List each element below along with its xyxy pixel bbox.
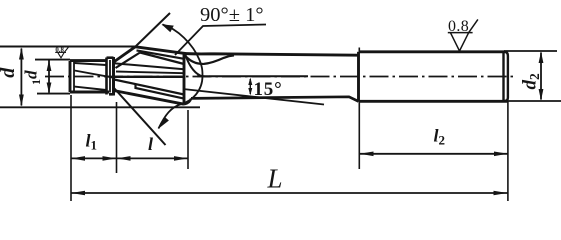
head flute line lower — [114, 80, 184, 95]
dimension L — [71, 192, 508, 194]
pilot interior lines — [75, 63, 114, 90]
arc arrowhead bottom — [158, 117, 169, 129]
head flute line upper — [140, 53, 184, 65]
extension line d2 top — [504, 50, 557, 52]
roughness symbol small 0.8 — [55, 47, 68, 58]
svg-text:l: l — [148, 134, 153, 154]
angular dimension arc 90deg — [159, 25, 203, 129]
head cone lip second line — [116, 53, 141, 69]
svg-text:0.8: 0.8 — [55, 47, 64, 54]
head top cone edge — [113, 47, 136, 63]
centerline — [45, 76, 515, 78]
45 deg construction line top — [136, 13, 171, 47]
pilot outline — [70, 61, 109, 92]
head flute line mid upper — [116, 72, 184, 74]
dimension l2 — [359, 153, 508, 155]
head top land line — [137, 50, 185, 58]
extension line l right — [187, 110, 189, 169]
leader for 90 deg — [175, 25, 266, 56]
extension line d1 top — [35, 59, 70, 61]
extension line right end — [507, 102, 509, 202]
head flute step lower — [136, 84, 185, 99]
svg-text:0.8: 0.8 — [448, 18, 469, 35]
flute runout tongue lower — [186, 55, 211, 77]
dimension d1 — [48, 61, 50, 93]
extension line d2 bottom — [504, 100, 561, 102]
head bottom edge — [114, 91, 185, 105]
collar between pilot and head — [107, 57, 114, 96]
15 deg double arrow — [249, 79, 251, 94]
extension line l2 left tick above — [358, 48, 360, 53]
flute runout tongue upper — [185, 55, 235, 64]
extension line d1 bottom — [37, 93, 70, 95]
45 deg construction line bottom — [114, 88, 166, 145]
neck bottom outline — [191, 97, 359, 102]
dimension d — [20, 49, 22, 106]
extension line d top — [0, 46, 136, 48]
svg-text:L: L — [267, 164, 283, 194]
head right edge — [183, 54, 186, 105]
arc arrowhead top — [162, 24, 174, 32]
extension line d bottom — [0, 106, 200, 108]
extension line l1/l middle — [116, 102, 118, 173]
head middle cutting edge — [114, 76, 185, 78]
head top edge to neck — [136, 47, 358, 55]
corner into neck bottom — [184, 99, 191, 105]
svg-text:15°: 15° — [254, 79, 283, 100]
extension line l1 left — [70, 95, 72, 201]
svg-text:d: d — [0, 67, 19, 78]
dimension d2 — [540, 53, 542, 100]
15 deg reference line — [197, 75, 308, 77]
dimension l1 and l — [71, 157, 188, 159]
head flute line long — [114, 63, 185, 69]
extension line l2 left below — [358, 102, 360, 170]
svg-text:90°± 1°: 90°± 1° — [200, 4, 264, 26]
15 deg slant line — [183, 89, 324, 105]
shank outline — [359, 52, 508, 102]
roughness symbol 0.8 on shank — [448, 19, 478, 51]
